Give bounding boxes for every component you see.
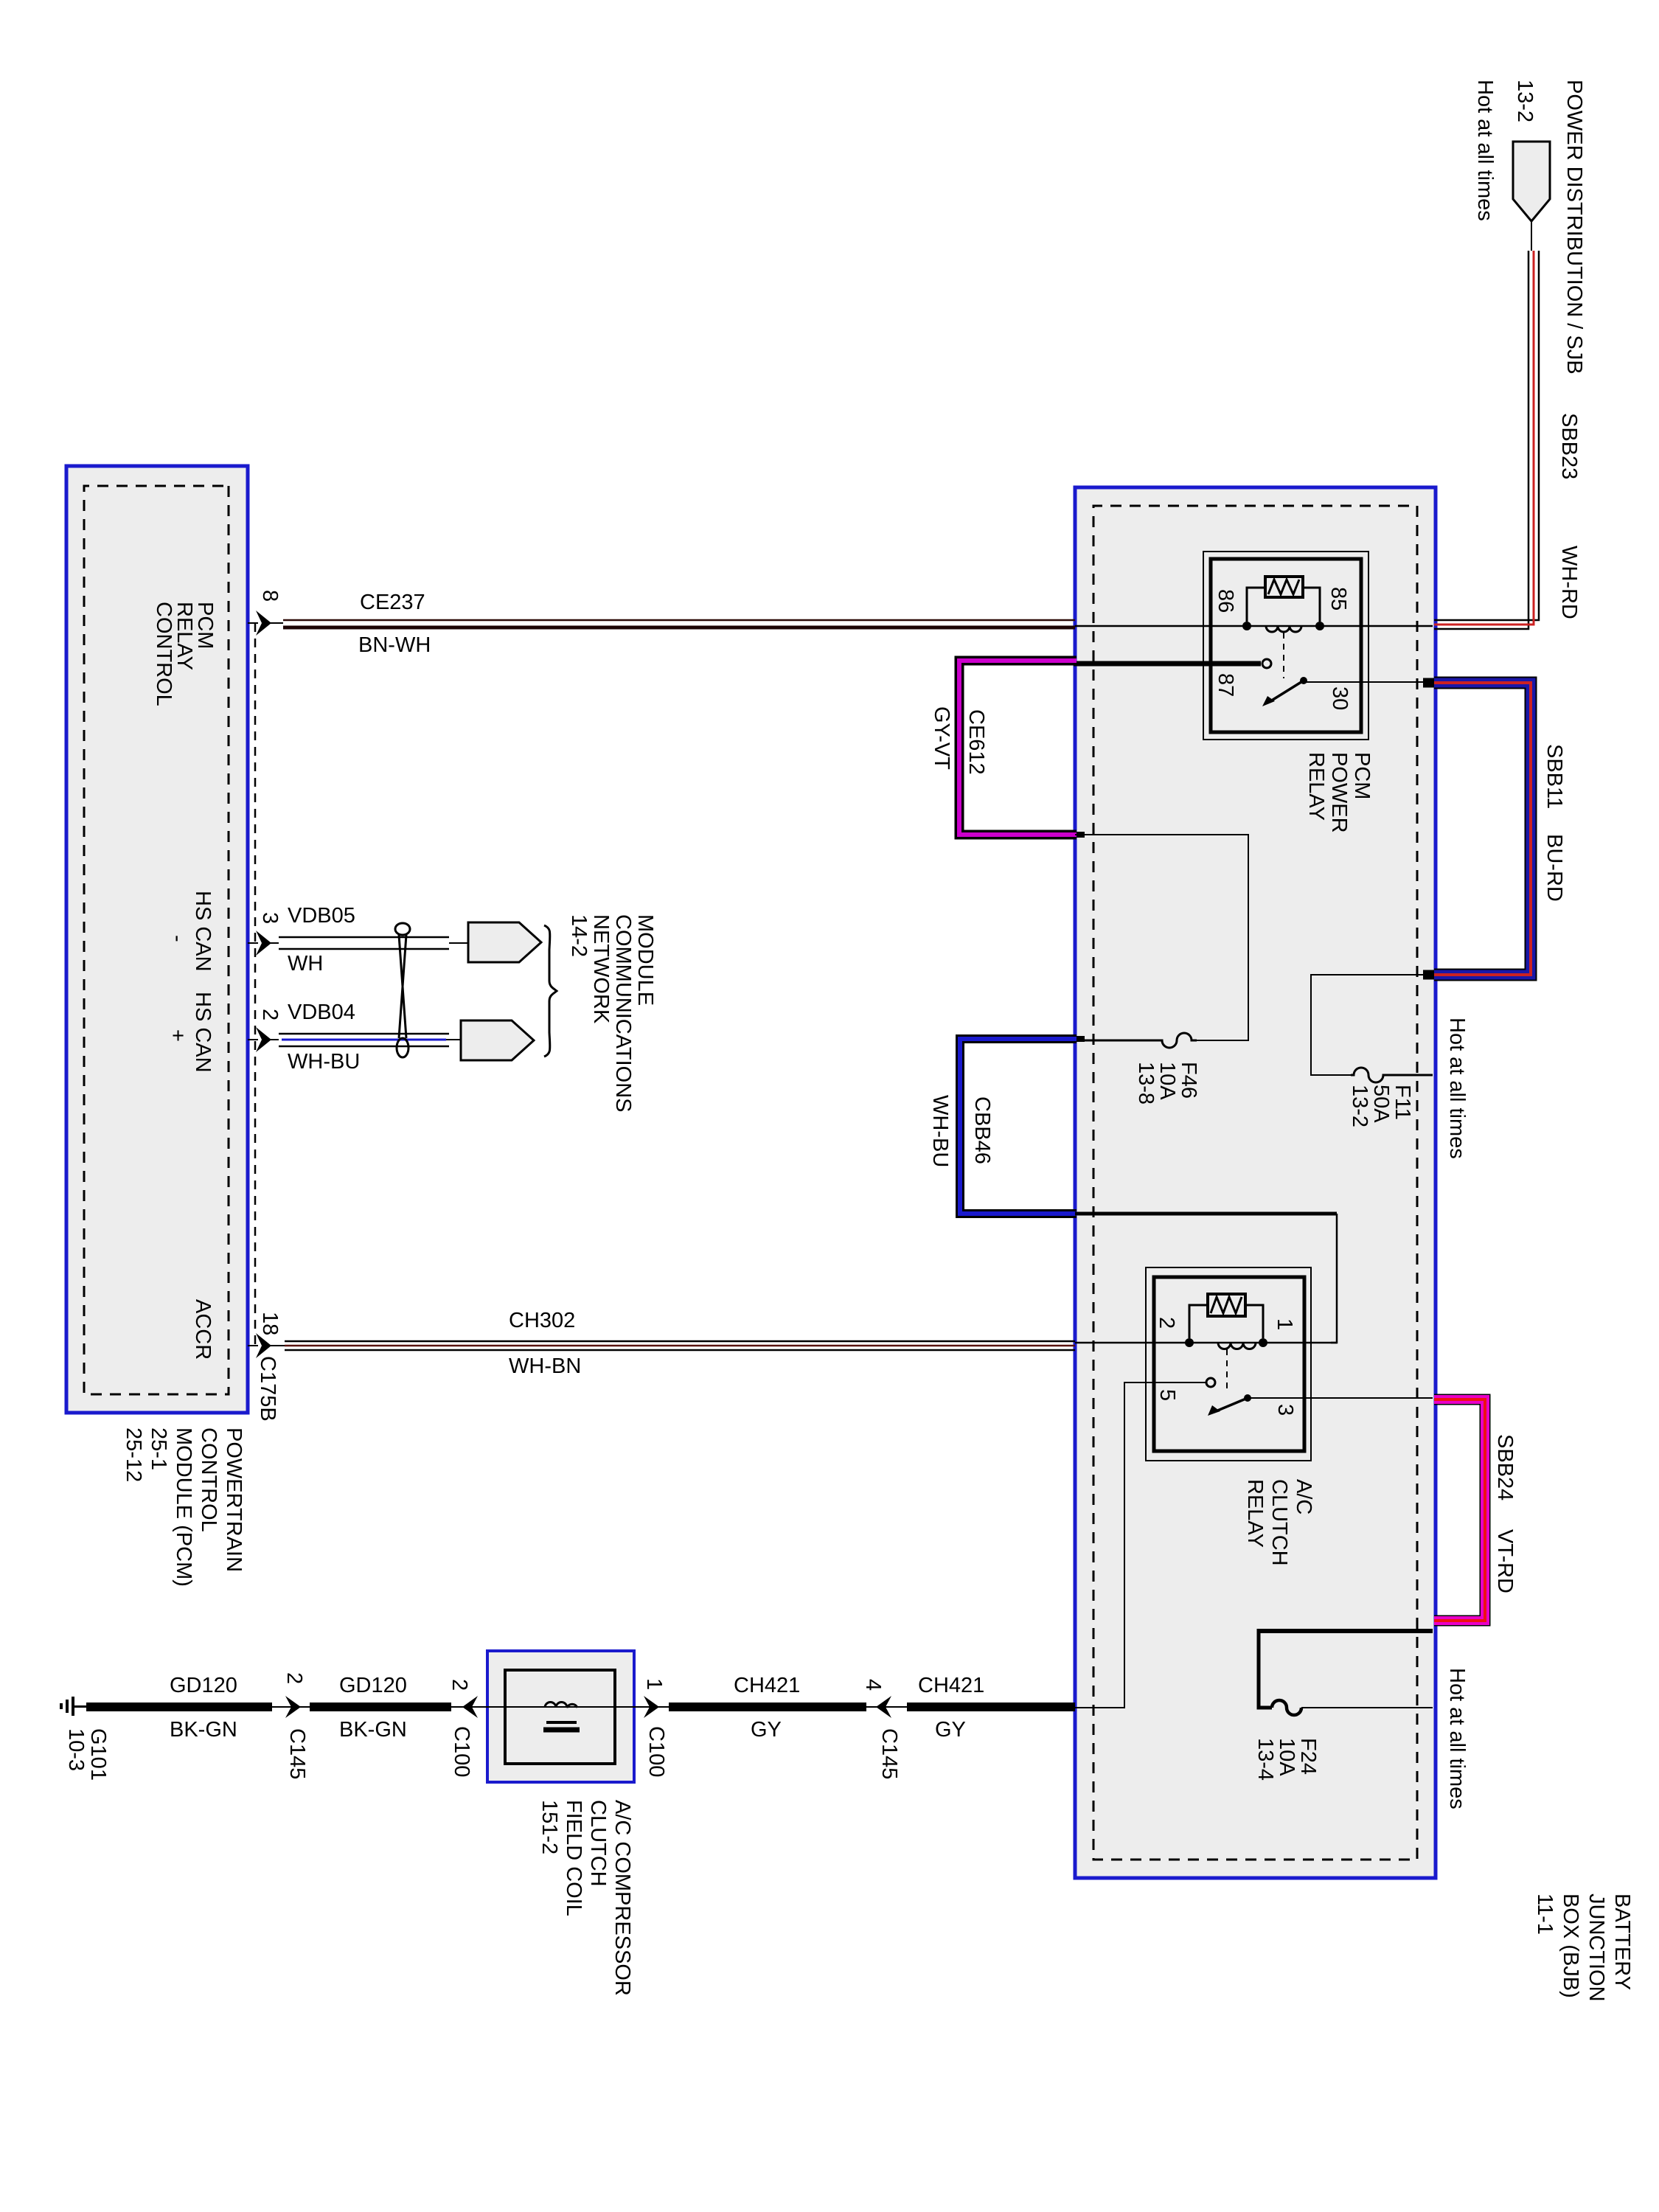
- label hot at all times F24: [1446, 1668, 1467, 1809]
- twisted pair crossover symbol: [395, 923, 410, 935]
- relay K2 pin 3 contact dot: [1244, 1394, 1251, 1402]
- relay K2 A/C clutch relay outer box: [1146, 1267, 1311, 1461]
- connector C145 arrow (near ground): [285, 1696, 301, 1718]
- relay U1 coil stubs: [1303, 588, 1320, 622]
- fuse F24 10A: [1272, 1700, 1301, 1715]
- rotated wire label GD120 BK-GN seg1: [170, 1675, 237, 1697]
- relay K2 coil stubs: [1245, 1305, 1263, 1338]
- connector C100 arrow (left of coil): [462, 1696, 478, 1718]
- rotated wire label CE237: [360, 592, 425, 613]
- relay K2 pin labels: [1273, 1318, 1295, 1330]
- pin 2 arrow: [256, 1027, 271, 1052]
- wire CH421 GY segment 1: [669, 1703, 866, 1711]
- node 86 junction dot: [1242, 622, 1251, 630]
- node 85 junction dot: [1315, 622, 1324, 630]
- label A/C clutch relay: [1242, 1479, 1315, 1566]
- wire node line through PCM power relay coil: [1075, 625, 1433, 627]
- wire CH302 WH-BN from A/C relay pin 2 to PCM pin 18: [285, 1340, 1075, 1343]
- label battery junction box: [1531, 1893, 1635, 2002]
- wire CE237 BN-WH from BJB to PCM pin 8: [283, 619, 1075, 622]
- wire SBB11 BU-RD hop: [1434, 683, 1531, 975]
- label power distribution header: [1563, 80, 1585, 375]
- label SBB23 WH-RD: [1558, 413, 1579, 479]
- wire VDB05 WH pair: [279, 936, 449, 939]
- pin numbers on PCM: [259, 590, 280, 602]
- label A/C compressor clutch field coil: [537, 1800, 634, 1996]
- label powertrain control module: [121, 1427, 246, 1587]
- label hot at all times F11: [1446, 1018, 1467, 1159]
- label SBB11 BU-RD: [1543, 744, 1565, 809]
- wire VDB04 WH-BU pair: [279, 1033, 449, 1035]
- dashed connector line C175B along PCM pins: [254, 623, 257, 1350]
- wire CBB46 WH-BU hop: [960, 1039, 1077, 1214]
- PCM module box: [66, 466, 248, 1413]
- relay U1 pin 30 contact dot: [1300, 677, 1307, 684]
- label SBB24 VT-RD: [1494, 1434, 1515, 1500]
- pin 2 stub lines: [248, 1039, 279, 1040]
- wire CH421 GY segment 2: [907, 1703, 1075, 1711]
- fuse F11 50A: [1351, 1068, 1433, 1082]
- label HS CAN minus: [192, 891, 213, 972]
- wire from pentagon: [1531, 221, 1532, 251]
- black stub at CBB46 left leg: [1074, 1036, 1085, 1042]
- rotated wire label CH421 GY seg2: [918, 1675, 984, 1697]
- wire SBB24 to fuse F24: [1259, 1629, 1433, 1633]
- relay U1 pin 87 terminal circle: [1262, 659, 1271, 668]
- label PCM relay control: [153, 602, 215, 706]
- chain connector labels: [283, 1672, 305, 1684]
- wire SBB24 VT-RD hop: [1434, 1399, 1485, 1621]
- wire pin 30 to BJB edge: [1304, 681, 1433, 683]
- pin 8 stub lines: [248, 622, 283, 624]
- relay U1 coil bumps: [1266, 626, 1301, 632]
- power feed connector pentagon from power distribution: [1513, 142, 1550, 221]
- relay K2 armature dashed link: [1226, 1349, 1228, 1394]
- relay U1 pin labels: [1327, 587, 1349, 611]
- wire CE612 GY-VT hop: [959, 661, 1077, 835]
- A/C compressor clutch field coil box: [487, 1651, 634, 1782]
- relay K2 coil resistor box: [1208, 1294, 1245, 1316]
- relay U1 PCM power relay outer box: [1203, 552, 1368, 740]
- label HS CAN plus: [192, 992, 213, 1073]
- label fuse F11: [1349, 1085, 1413, 1127]
- compressor clutch field coil core bars: [546, 1721, 577, 1724]
- wire SBB11 to fuse F11: [1311, 975, 1433, 1075]
- wire SBB23 WH-RD to BJB: [1434, 251, 1539, 620]
- label G101 ground: [65, 1728, 109, 1781]
- label fuse F46: [1135, 1062, 1199, 1105]
- relay U1 coil resistor box: [1265, 577, 1303, 597]
- rotated wire label VDB05 WH: [288, 905, 355, 927]
- relay K2 pin 5 terminal circle: [1206, 1378, 1215, 1387]
- wire CE612 to fuse F46: [1075, 835, 1248, 1040]
- pin 3 stub lines: [248, 942, 279, 944]
- rotated wire label GD120 BK-GN seg2: [339, 1675, 407, 1697]
- rotated wire label VDB04 WH-BU: [288, 1002, 355, 1023]
- compressor clutch field coil bumps: [545, 1703, 577, 1708]
- wire pin 87 to BJB edge: [1074, 661, 1261, 667]
- BJB dashed border: [1093, 506, 1417, 1860]
- label module communications network: [568, 914, 656, 1113]
- wire GD120 BK-GN segment 2: [310, 1703, 451, 1711]
- wire pin 3 to BJB edge: [1248, 1397, 1433, 1399]
- connector C100 arrow (right of coil): [644, 1696, 659, 1718]
- label CE612 GY-VT: [965, 709, 987, 775]
- pin 18 stub lines: [248, 1345, 285, 1346]
- brace for module communications network: [544, 925, 557, 1057]
- connector pentagon to module communications network (lower): [461, 1020, 534, 1060]
- label CBB46 WH-BU: [971, 1096, 992, 1164]
- wire GD120 BK-GN segment 1: [86, 1703, 272, 1711]
- connector pentagon to module communications network (upper): [468, 922, 541, 962]
- rotated wire label CH421 GY seg1: [734, 1675, 800, 1697]
- rotated wire label CH302 WH-BN: [509, 1310, 575, 1332]
- PCM dashed border: [84, 486, 229, 1394]
- wire pin 5 to CH421: [1075, 1382, 1206, 1708]
- relay U1 switch arm: [1270, 681, 1304, 701]
- pin 8 arrow: [256, 611, 271, 636]
- relay K2 pin 2 junction dot: [1185, 1338, 1194, 1347]
- pin 18 arrow: [256, 1333, 271, 1358]
- wire node line through A/C clutch relay coil: [1075, 1342, 1337, 1344]
- label PCM power relay: [1304, 752, 1373, 833]
- relay U1 armature dashed link: [1283, 633, 1284, 678]
- black stubs at SBB11 termini: [1423, 678, 1434, 688]
- label fuse F24: [1254, 1738, 1318, 1781]
- fuse F46 10A: [1075, 1033, 1197, 1048]
- connector C145 arrow (near BJB): [876, 1696, 891, 1718]
- black stub at CE612 lower leg: [1074, 832, 1085, 838]
- relay K2 switch arm: [1216, 1398, 1248, 1411]
- wire chain ground to BJB thin line: [74, 1706, 1075, 1708]
- relay K2 coil bumps: [1218, 1343, 1256, 1349]
- pin 3 arrow: [256, 931, 271, 956]
- label ACCR: [192, 1299, 213, 1360]
- battery junction box BJB: [1075, 487, 1436, 1878]
- relay K2 pin 1 junction dot: [1259, 1338, 1267, 1347]
- wire CBB46 to A/C clutch relay pin 1: [1075, 1212, 1337, 1216]
- ground G101 symbol: [74, 1705, 86, 1707]
